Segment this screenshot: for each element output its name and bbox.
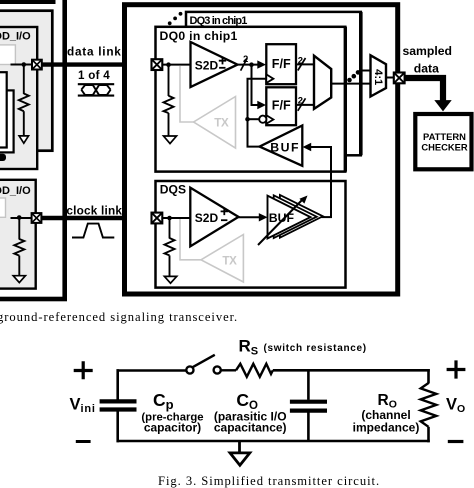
pad3: [152, 59, 163, 70]
svg-text:(switch resistance): (switch resistance): [264, 343, 367, 354]
pad1: [32, 60, 42, 70]
FF2 clock bubble: [259, 116, 266, 123]
svg-text:Vini: Vini: [70, 396, 96, 416]
wire pad1 stub left: [11, 64, 33, 66]
wire clock tree vertical: [248, 79, 267, 147]
ground fig3 symbol: [230, 453, 250, 465]
wire resistor3 bottom: [168, 113, 170, 136]
wire resistor1 top: [23, 65, 25, 95]
capacitor CP plate2: [100, 407, 137, 411]
op-amp S2D U2: [190, 188, 238, 247]
wire S2D to FF1: [238, 64, 259, 66]
lane dots: [347, 70, 360, 82]
wire branch to FF2: [252, 65, 259, 105]
svg-text:DQ3 in chip1: DQ3 in chip1: [190, 15, 248, 27]
bus slash a: [241, 58, 248, 71]
minus sign left: [76, 440, 91, 443]
arrowhead into FF1: [257, 60, 266, 68]
fig3 bottom wire: [117, 440, 430, 443]
wire S2D to BUF DQS: [239, 216, 260, 218]
svg-text:BUF: BUF: [270, 141, 300, 155]
wire lane stub: [361, 70, 371, 72]
arrowhead into FF2: [257, 101, 266, 109]
stacked white box B: [0, 90, 14, 152]
svg-text:F/F: F/F: [272, 57, 291, 71]
pattern checker box: [415, 114, 471, 169]
svg-text:Cp: Cp: [153, 390, 174, 412]
chip0 outer box: [0, 0, 65, 299]
capacitor CO plate1: [290, 400, 327, 404]
grayed TX box block 1: [0, 45, 15, 65]
chip0 stacked-die top bar: [0, 0, 56, 4]
fig3 top wire left: [117, 369, 187, 372]
capacitor CP plate1: [100, 399, 137, 403]
resistor R term4: [165, 238, 175, 255]
clock link wire: [37, 216, 157, 220]
mux 2:1: [314, 56, 331, 109]
resistor RO top stub: [427, 369, 430, 384]
capacitor CO plate2: [290, 409, 327, 413]
svg-text:RS: RS: [239, 337, 259, 358]
minus sign right: [448, 440, 464, 443]
svg-text:Fig. 3. Simplified transmitte: Fig. 3. Simplified transmitter circuit.: [158, 474, 380, 488]
sampled data arrow wire: [405, 78, 443, 101]
chip1 outer box: [125, 5, 398, 294]
stacked white box A: [0, 72, 7, 147]
DQ0 right edge thick: [344, 27, 347, 172]
wire resistor2 top: [18, 218, 20, 240]
data link wire: [37, 62, 157, 66]
node junction dot 1: [22, 62, 27, 67]
svg-text:DQS: DQS: [160, 183, 186, 197]
fig3 wire switch to RS: [221, 369, 236, 371]
resistor RS: [236, 364, 273, 377]
wire FF1 out: [296, 63, 314, 65]
arrowhead to pattern checker: [434, 100, 451, 111]
svg-text:DD_I/O: DD_I/O: [0, 185, 31, 197]
OD_I/O block 1 box: [0, 27, 37, 169]
svg-text:impedance): impedance): [353, 420, 420, 434]
wire pad4 to S2D U2: [157, 217, 190, 219]
wire resistor1 bottom: [23, 111, 25, 136]
ground fig3 stem: [238, 441, 241, 453]
switch S1 contact left: [186, 366, 193, 373]
pattern checker label: [421, 131, 468, 153]
svg-text:data: data: [414, 62, 439, 76]
ground DQS: [164, 276, 176, 283]
DQS box: [156, 181, 346, 288]
delay buffer BUF DQS triangle 2: [274, 195, 317, 238]
flip-flop FF2: [266, 87, 296, 125]
svg-text:TX: TX: [214, 117, 229, 130]
wire resistor3: [168, 65, 170, 96]
svg-text:TX: TX: [222, 254, 237, 267]
op-amp S2D U1: [191, 42, 238, 87]
svg-text:DQ0 in chip1: DQ0 in chip1: [160, 29, 238, 43]
clock pulse symbol: [72, 224, 114, 238]
svg-text:ground-referenced signaling tr: ground-referenced signaling transceiver.: [0, 310, 238, 324]
plus sign left: [74, 361, 93, 379]
node junction dot 3: [166, 62, 171, 67]
pad2: [32, 213, 42, 223]
grayed TX box block 2: [0, 198, 6, 217]
wire resistor2 bottom: [18, 256, 20, 276]
mux 4:1: [371, 55, 387, 96]
fig3 middle branch bottom: [307, 413, 310, 443]
bus slash c: [298, 98, 306, 111]
svg-text:1 of 4: 1 of 4: [78, 69, 110, 82]
arrowhead into BUF DQS: [259, 213, 268, 221]
wire pad2 stub left: [11, 217, 33, 219]
grayed TX amp DQS: [201, 235, 243, 283]
delay buffer BUF DQS triangle 3: [280, 195, 323, 238]
wire pad3 to S2D U1: [157, 64, 191, 66]
cut label blob: [0, 154, 6, 161]
FF1 clock pin: [266, 74, 273, 83]
fig3 left wire top: [116, 369, 119, 399]
fig3 top wire right: [273, 369, 430, 372]
svg-text:sampled: sampled: [403, 44, 452, 58]
resistor R term3: [164, 96, 174, 113]
svg-text:data link: data link: [67, 45, 122, 59]
svg-text:clock link: clock link: [66, 204, 122, 218]
svg-text:capacitor): capacitor): [144, 421, 201, 435]
node junction dot clock: [245, 117, 250, 122]
plus sign right: [447, 360, 466, 378]
svg-text:S2D: S2D: [195, 58, 219, 72]
wire FF2 out: [296, 104, 314, 106]
wire 4:1 out: [386, 77, 395, 79]
FF2 clock pin: [266, 115, 273, 124]
wire resistor4: [169, 218, 171, 239]
ground block1: [19, 136, 28, 143]
svg-text:VO: VO: [446, 396, 465, 416]
svg-text:DD_I/O: DD_I/O: [0, 31, 31, 43]
S2D U1 plus: [219, 57, 226, 64]
S2D U2 plus: [221, 208, 228, 215]
variable delay arrow line: [258, 199, 304, 246]
fig3 left wire bottom: [116, 411, 119, 442]
pad4: [152, 213, 163, 224]
delay buffer BUF DQS triangle 1: [268, 196, 311, 239]
node junction dot 4: [167, 216, 172, 221]
flip-flop FF1: [266, 44, 296, 84]
wire bubble stub: [248, 118, 260, 120]
wire BUF input from DQS: [310, 147, 332, 217]
DQ3 label dots: [168, 12, 183, 25]
switch S1 lever: [193, 355, 215, 367]
ground block2: [13, 276, 25, 283]
grayed TX amp DQ0: [194, 97, 236, 149]
chip0 die frame: [0, 11, 52, 151]
DQ3 box: [186, 12, 361, 155]
switch S1 contact right: [214, 366, 221, 373]
variable delay arrowhead: [299, 196, 307, 204]
S2D U1 minus: [219, 67, 225, 69]
grayed TX wire DQS: [180, 219, 201, 260]
DQ3 right edge thick: [359, 12, 363, 155]
grayed TX wire DQ0: [180, 66, 194, 122]
svg-text:4:1: 4:1: [372, 69, 384, 85]
bus slash b: [298, 58, 306, 71]
pad5 sampled data: [394, 73, 405, 84]
resistor RO: [421, 383, 437, 427]
svg-text:F/F: F/F: [272, 99, 291, 113]
arrowhead into BUF DQ0: [303, 143, 312, 151]
svg-text:S2D: S2D: [195, 211, 219, 225]
wire resistor4 bottom: [169, 255, 171, 276]
fig3 middle branch top: [307, 369, 310, 400]
buffer BUF DQ0: [260, 126, 303, 166]
svg-text:PATTERN: PATTERN: [423, 131, 466, 142]
node junction dot 2: [17, 215, 22, 220]
svg-text:capacitance): capacitance): [214, 421, 287, 435]
svg-text:CHECKER: CHECKER: [421, 141, 468, 152]
resistor R term1: [19, 94, 29, 112]
OD_I/O block 2 box: [0, 180, 36, 289]
DQ0 box: [156, 27, 346, 172]
ground DQ0: [164, 136, 177, 144]
wire BUF DQS out: [322, 216, 333, 218]
resistor R term2: [14, 239, 24, 256]
S2D U2 minus: [221, 219, 227, 221]
wire mux out to 4:1: [331, 83, 370, 85]
resistor RO bottom stub: [427, 427, 430, 443]
node junction dot data branch: [249, 62, 254, 67]
eye diagram symbol: [78, 84, 114, 95]
